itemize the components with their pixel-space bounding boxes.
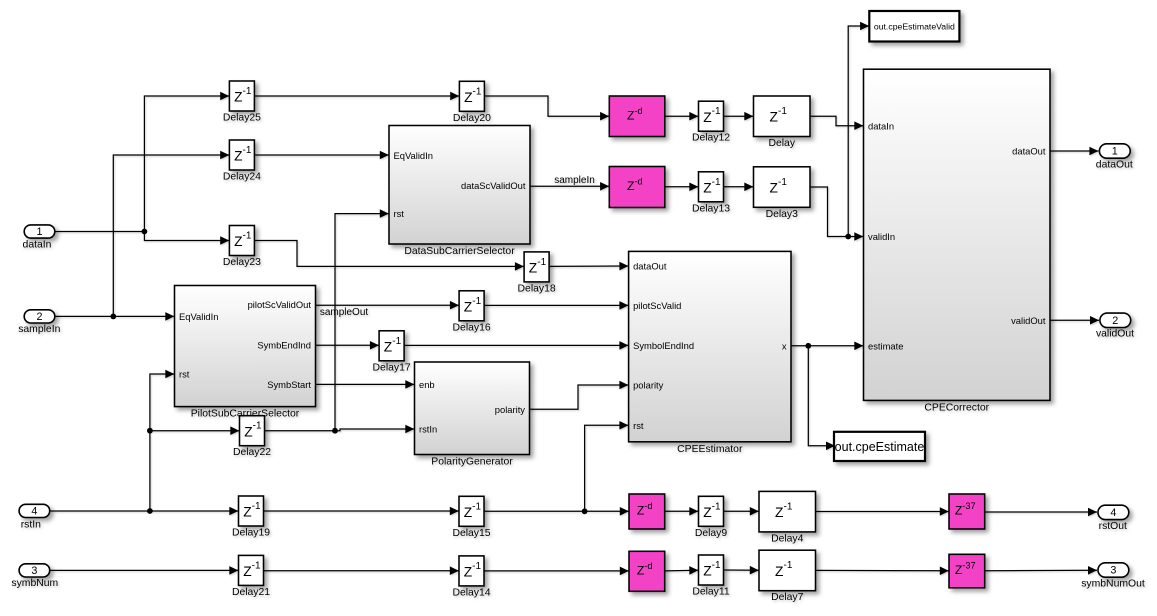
svg-text:Delay3: Delay3 bbox=[766, 209, 799, 220]
wire Delay23 to Delay18 bbox=[255, 241, 524, 271]
wire rstIn to Delay19 bbox=[50, 507, 238, 516]
delay block Delay12 bbox=[699, 101, 724, 131]
svg-text:enb: enb bbox=[419, 379, 435, 390]
svg-text:Delay18: Delay18 bbox=[518, 283, 556, 294]
svg-text:CPECorrector: CPECorrector bbox=[924, 402, 989, 413]
delay block Delay bbox=[754, 96, 811, 137]
wire Delay17 to CPEEstimator SymbolEndInd bbox=[404, 341, 628, 350]
subsystem PilotSubCarrierSelector bbox=[175, 286, 316, 407]
wire sampleIn to PilotSubCarrierSelector EqValidIn bbox=[55, 312, 174, 321]
delay block Delay19 bbox=[239, 496, 264, 526]
wire Delay20 to Z-d delay bbox=[485, 96, 609, 121]
delay block Delay13 bbox=[699, 172, 724, 202]
wire Delay3 to CPECorrector validIn bbox=[810, 187, 863, 241]
wire Delay19 to Delay15 bbox=[264, 507, 459, 516]
svg-text:Delay4: Delay4 bbox=[771, 533, 804, 544]
svg-text:symbNum: symbNum bbox=[11, 578, 58, 589]
svg-text:rst: rst bbox=[633, 420, 644, 431]
wire SymbEndInd to Delay17 bbox=[316, 341, 379, 350]
junction sampleIn bbox=[110, 314, 116, 320]
wire dataIn from port 1 bbox=[55, 231, 144, 233]
wire branch to CPEEstimator rst bbox=[585, 421, 629, 511]
wire Delay24 to DataSubCarrierSelector EqValidIn bbox=[255, 151, 389, 160]
delay block Delay22 bbox=[240, 416, 265, 446]
wire Delay16 to CPEEstimator pilotScValid bbox=[484, 301, 628, 310]
delay block Delay9 bbox=[699, 496, 724, 526]
svg-text:sampleIn: sampleIn bbox=[18, 324, 60, 335]
outport log block out.cpeEstimateValid bbox=[869, 11, 959, 42]
svg-text:DataSubCarrierSelector: DataSubCarrierSelector bbox=[404, 246, 515, 257]
svg-text:polarity: polarity bbox=[495, 404, 526, 415]
svg-text:Delay21: Delay21 bbox=[232, 587, 270, 598]
wire branch to out.cpeEstimateValid bbox=[848, 22, 869, 237]
svg-text:dataIn: dataIn bbox=[23, 239, 52, 250]
svg-text:out.cpeEstimate: out.cpeEstimate bbox=[835, 440, 925, 454]
wire CPECorrector validOut to port bbox=[1050, 316, 1099, 325]
port 2 bbox=[24, 310, 55, 323]
svg-text:Delay22: Delay22 bbox=[233, 447, 271, 458]
wire Delay4 to Z-37 delay bbox=[815, 507, 948, 516]
svg-text:Delay7: Delay7 bbox=[771, 592, 804, 603]
junction rstIn bbox=[147, 508, 153, 514]
wire Z-d to Delay13 bbox=[665, 183, 698, 192]
wire Delay to CPECorrector dataIn bbox=[810, 116, 863, 130]
delay block Delay11 bbox=[699, 555, 724, 585]
svg-text:sampleIn: sampleIn bbox=[554, 175, 595, 186]
port 4 bbox=[1098, 505, 1129, 519]
svg-text:rstOut: rstOut bbox=[1099, 521, 1127, 532]
svg-text:PilotSubCarrierSelector: PilotSubCarrierSelector bbox=[191, 409, 300, 420]
svg-text:pilotScValid: pilotScValid bbox=[633, 300, 681, 311]
port 2 bbox=[1100, 313, 1131, 327]
wire branch to Delay22 bbox=[150, 426, 239, 435]
svg-text:Delay23: Delay23 bbox=[223, 257, 261, 268]
wire Z-d to Delay9 bbox=[665, 507, 699, 516]
wire SymbStart to PolarityGenerator enb bbox=[316, 380, 415, 389]
svg-text:validIn: validIn bbox=[868, 231, 895, 242]
svg-text:rstIn: rstIn bbox=[21, 519, 41, 530]
delay block Delay14 bbox=[459, 556, 484, 586]
svg-text:EqValidIn: EqValidIn bbox=[179, 311, 218, 322]
delay block Delay23 bbox=[229, 226, 254, 256]
wire dataIn branch down to Delay23 bbox=[144, 232, 229, 245]
svg-text:2: 2 bbox=[36, 311, 42, 323]
svg-text:out.cpeEstimateValid: out.cpeEstimateValid bbox=[874, 21, 955, 31]
wire Delay15 to Z-d delay bbox=[484, 507, 629, 516]
wire Delay9 to Delay4 bbox=[724, 507, 759, 516]
delay block Delay3 bbox=[754, 167, 811, 208]
svg-text:Delay16: Delay16 bbox=[453, 322, 491, 333]
wire pilotScValidOut to Delay16 bbox=[316, 301, 459, 310]
svg-text:Delay12: Delay12 bbox=[692, 133, 730, 144]
svg-text:4: 4 bbox=[1110, 507, 1116, 519]
port 3 bbox=[19, 564, 50, 577]
svg-text:Delay20: Delay20 bbox=[453, 113, 491, 124]
svg-text:EqValidIn: EqValidIn bbox=[394, 150, 433, 161]
port 3 bbox=[1098, 563, 1129, 577]
delay block Delay25 bbox=[229, 81, 254, 111]
delay block Delay4 bbox=[759, 491, 816, 532]
svg-text:dataIn: dataIn bbox=[868, 120, 894, 131]
junction rst to CPEEstimator bbox=[582, 508, 588, 514]
svg-text:2: 2 bbox=[1112, 315, 1118, 327]
wire branch to DataSubCarrierSelector rst bbox=[335, 209, 389, 430]
subsystem CPECorrector bbox=[864, 69, 1051, 400]
svg-text:3: 3 bbox=[31, 565, 37, 577]
wire dataScValidOut to Z-d delay bbox=[530, 182, 609, 191]
wire Delay13 to Delay3 bbox=[724, 183, 754, 192]
wire dataIn branch up to Delay25 bbox=[144, 92, 229, 232]
port 1 bbox=[24, 225, 55, 238]
svg-text:Delay9: Delay9 bbox=[695, 528, 728, 539]
svg-text:Delay24: Delay24 bbox=[223, 172, 261, 183]
svg-text:dataScValidOut: dataScValidOut bbox=[461, 180, 526, 191]
junction dataIn bbox=[142, 229, 148, 235]
wire Delay12 to Delay bbox=[724, 112, 754, 121]
delay block Delay24 bbox=[229, 140, 254, 170]
svg-text:rst: rst bbox=[179, 369, 190, 380]
wire Z-37 to symbNumOut port bbox=[985, 566, 1097, 575]
svg-text:Delay19: Delay19 bbox=[232, 528, 270, 539]
wire Delay25 to Delay20 bbox=[255, 92, 459, 101]
svg-text:Delay11: Delay11 bbox=[692, 587, 730, 598]
variable delay block Delay8 (Z^-d) bbox=[629, 551, 665, 591]
subsystem CPEEstimator bbox=[629, 251, 791, 441]
svg-text:rst: rst bbox=[394, 208, 405, 219]
svg-text:CPEEstimator: CPEEstimator bbox=[677, 444, 743, 455]
port 1 bbox=[1099, 144, 1130, 158]
wire sampleIn branch up to Delay24 bbox=[113, 151, 229, 317]
delay block Delay17 bbox=[379, 331, 404, 361]
svg-text:rstIn: rstIn bbox=[419, 424, 437, 435]
variable delay block Delay10 (Z^-37) bbox=[949, 494, 985, 529]
port 4 bbox=[19, 504, 50, 517]
svg-text:PolarityGenerator: PolarityGenerator bbox=[431, 457, 513, 468]
delay block Delay7 bbox=[759, 550, 816, 591]
wire rstIn branch to PilotSubCarrierSelector rst bbox=[150, 370, 174, 511]
wire Delay18 to CPEEstimator dataOut bbox=[549, 262, 628, 271]
wire Delay21 to Delay14 bbox=[264, 566, 459, 575]
svg-text:dataOut: dataOut bbox=[633, 261, 667, 272]
svg-text:Delay14: Delay14 bbox=[452, 587, 490, 598]
svg-text:x: x bbox=[782, 340, 787, 351]
junction rst to Delay22 bbox=[147, 428, 153, 434]
delay block Delay20 bbox=[459, 81, 484, 111]
wire Delay22 to PolarityGenerator rstIn bbox=[265, 425, 415, 434]
wire symbNum to Delay21 bbox=[50, 566, 238, 575]
svg-text:validOut: validOut bbox=[1096, 329, 1134, 340]
wire Delay7 to Z-37 delay bbox=[815, 566, 948, 575]
wire Delay11 to Delay7 bbox=[724, 566, 759, 575]
svg-text:1: 1 bbox=[36, 226, 42, 238]
wire CPECorrector dataOut to port bbox=[1050, 147, 1098, 156]
svg-text:Delay17: Delay17 bbox=[373, 362, 411, 373]
wire branch to out.cpeEstimate bbox=[808, 346, 835, 450]
junction rst net bbox=[332, 428, 338, 434]
junction validIn bbox=[845, 234, 851, 240]
svg-text:estimate: estimate bbox=[868, 340, 903, 351]
svg-text:4: 4 bbox=[31, 506, 37, 518]
svg-text:dataOut: dataOut bbox=[1096, 160, 1133, 171]
subsystem DataSubCarrierSelector bbox=[389, 126, 530, 245]
svg-text:SymbolEndInd: SymbolEndInd bbox=[633, 340, 694, 351]
delay block Delay21 bbox=[239, 555, 264, 585]
svg-text:1: 1 bbox=[1112, 146, 1118, 158]
delay block Delay15 bbox=[459, 496, 484, 526]
svg-text:pilotScValidOut: pilotScValidOut bbox=[248, 299, 312, 310]
variable delay block Delay6 (Z^-d) bbox=[629, 494, 665, 529]
delay block Delay18 bbox=[524, 252, 549, 282]
svg-text:SymbStart: SymbStart bbox=[267, 379, 311, 390]
svg-text:Delay25: Delay25 bbox=[223, 113, 261, 124]
junction estimate bbox=[805, 343, 811, 349]
svg-text:symbNumOut: symbNumOut bbox=[1081, 578, 1145, 589]
wire Z-d to Delay12 bbox=[665, 112, 698, 121]
svg-text:3: 3 bbox=[1110, 565, 1116, 577]
variable delay block Delay5 (Z^-d) bbox=[609, 167, 665, 208]
svg-text:dataOut: dataOut bbox=[1012, 146, 1046, 157]
wire Delay14 to Z-d delay bbox=[484, 567, 629, 576]
svg-text:Delay13: Delay13 bbox=[692, 203, 730, 214]
svg-text:Delay15: Delay15 bbox=[452, 528, 490, 539]
svg-text:Delay: Delay bbox=[768, 138, 795, 149]
wire x to CPECorrector estimate bbox=[791, 342, 863, 351]
wire Z-d to Delay11 bbox=[665, 566, 699, 575]
svg-text:polarity: polarity bbox=[633, 380, 664, 391]
variable delay block Delay2 (Z^-d) bbox=[609, 96, 665, 137]
svg-text:SymbEndInd: SymbEndInd bbox=[257, 339, 311, 350]
outport log block out.cpeEstimate bbox=[834, 432, 925, 461]
variable delay block Delay1 (Z^-37) bbox=[949, 554, 985, 588]
delay block Delay16 bbox=[459, 291, 484, 321]
wire Z-37 to rstOut port bbox=[985, 508, 1097, 517]
svg-text:validOut: validOut bbox=[1011, 315, 1046, 326]
svg-text:sampleOut: sampleOut bbox=[320, 307, 369, 318]
wire polarity to CPEEstimator polarity bbox=[530, 381, 629, 410]
subsystem PolarityGenerator bbox=[415, 362, 530, 455]
